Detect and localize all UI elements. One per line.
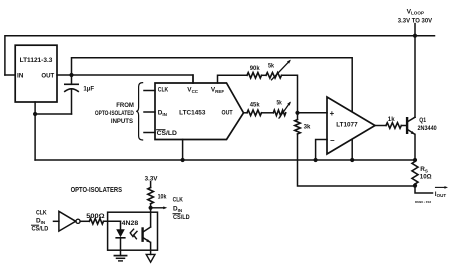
wire: input to buffer xyxy=(54,220,59,222)
wire: top divider down to summing node xyxy=(282,75,298,113)
op-amp U1 LT1077 xyxy=(327,97,375,154)
arrow to isolated outputs xyxy=(151,207,165,209)
pin: CS/LD stub xyxy=(144,132,155,134)
svg-text:IN: IN xyxy=(17,73,24,80)
label IOUT with arrow xyxy=(436,186,446,188)
node: VLOOP junction on top rail xyxy=(413,34,417,38)
svg-text:10k: 10k xyxy=(158,194,167,201)
wire: regulator OUT to LTC1453 VCC xyxy=(57,75,193,83)
svg-text:3k: 3k xyxy=(304,123,311,130)
wire: 1k to Q1 base xyxy=(401,125,406,127)
svg-text:DN96 • F03: DN96 • F03 xyxy=(415,200,431,204)
wire: summing node to op-amp + input xyxy=(298,112,328,114)
trimpot 5k (middle) xyxy=(273,110,285,116)
pin: VREF stub and wire to 90k xyxy=(218,75,248,83)
trimpot 5k (top) xyxy=(266,73,282,79)
svg-text:OUT: OUT xyxy=(222,110,233,117)
pin: GND stub to ground rail xyxy=(182,140,184,161)
buffer/inverter A1 xyxy=(59,211,76,231)
svg-text:Q1: Q1 xyxy=(419,117,426,124)
svg-text:3.3V: 3.3V xyxy=(145,175,159,182)
wire: 90k to 5k xyxy=(262,74,267,76)
wire: bubble to 500 ohm xyxy=(80,220,89,222)
svg-text:1µF: 1µF xyxy=(83,85,94,92)
svg-text:CS/LD: CS/LD xyxy=(157,130,178,137)
wire: IN pin to left rail xyxy=(5,74,15,76)
svg-text:CLK: CLK xyxy=(36,209,47,216)
svg-text:+: + xyxy=(330,109,335,118)
svg-text:−: − xyxy=(330,136,335,145)
DAC U3 LTC1453 outline xyxy=(155,83,244,140)
wire: 3k to RS bottom (loop return) xyxy=(298,134,416,186)
pin: VCC stub xyxy=(192,75,194,83)
node: - input tap on rail xyxy=(314,158,318,162)
node: op-amp V- on rail xyxy=(350,158,354,162)
svg-text:45k: 45k xyxy=(250,102,260,109)
svg-text:4N28: 4N28 xyxy=(122,220,139,227)
svg-text:CLK: CLK xyxy=(158,87,169,94)
resistor 500 ohm xyxy=(89,219,103,225)
resistor RS 10 ohm xyxy=(412,162,418,185)
svg-text:1k: 1k xyxy=(388,116,395,123)
svg-text:5k: 5k xyxy=(268,62,274,69)
resistor 3k xyxy=(297,113,299,120)
svg-text:500Ω: 500Ω xyxy=(86,213,104,220)
ground (earth) under LED xyxy=(114,255,126,257)
wire: photo emitter down to signal ground xyxy=(150,242,152,254)
brace for opto-isolated inputs xyxy=(136,83,143,140)
pin: op-amp V- to ground rail xyxy=(351,140,353,160)
svg-text:3.3V TO 30V: 3.3V TO 30V xyxy=(398,17,433,24)
signal ground triangle xyxy=(146,254,155,262)
wire: VLOOP drop to Q1 collector xyxy=(414,24,416,118)
svg-text:90k: 90k xyxy=(250,65,260,72)
phototransistor inside opto xyxy=(141,229,143,241)
wire: regulator GND down to ground rail xyxy=(34,102,36,160)
opto-isolator 4N28 box xyxy=(108,212,158,250)
wire: DAC OUT to 45k xyxy=(244,112,248,114)
svg-text:CS/LD: CS/LD xyxy=(173,214,190,221)
node: LTC1453 GND on rail xyxy=(181,158,185,162)
wire: op-amp output to 1k xyxy=(375,125,386,127)
wire: 3.3V to op-amp V+ supply xyxy=(72,58,353,112)
svg-text:OPTO-ISOLATERS: OPTO-ISOLATERS xyxy=(71,185,122,194)
svg-text:INPUTS: INPUTS xyxy=(111,118,133,125)
svg-text:LTC1453: LTC1453 xyxy=(179,110,206,117)
svg-text:LT1121-3.3: LT1121-3.3 xyxy=(20,57,53,64)
node: collector / 10k junction xyxy=(149,206,153,210)
inverter bubble xyxy=(76,219,80,223)
wire: photo collector up to 10k xyxy=(150,204,152,227)
wire: 3.3V stub xyxy=(150,182,152,188)
node: GND pin junction xyxy=(33,112,37,116)
svg-text:LT1077: LT1077 xyxy=(336,121,358,128)
resistor 10k pull-up xyxy=(148,188,154,204)
node: emitter / RS junction xyxy=(413,158,417,162)
svg-text:5k: 5k xyxy=(277,99,283,106)
wire: 45k to 5k xyxy=(262,112,274,114)
svg-text:CS/LD: CS/LD xyxy=(32,226,49,233)
pin: CLK stub xyxy=(144,90,155,92)
resistor 1k xyxy=(386,123,401,129)
photon coupling squiggles xyxy=(130,229,133,236)
node: RS bottom junction xyxy=(413,184,417,188)
regulator U2 LT1121-3.3 box xyxy=(15,45,57,102)
LED inside opto xyxy=(120,221,122,229)
svg-text:2N3440: 2N3440 xyxy=(418,125,438,132)
svg-text:OPTO-ISOLATED: OPTO-ISOLATED xyxy=(95,110,134,117)
wire: VLOOP top rail xyxy=(5,36,435,75)
pin: DIN stub xyxy=(144,111,155,113)
capacitor C1 1uF xyxy=(71,75,73,84)
resistor 45k xyxy=(247,110,262,116)
svg-text:OUT: OUT xyxy=(41,73,54,80)
node: summing node at op-amp + xyxy=(295,111,299,115)
resistor 90k xyxy=(247,73,262,79)
svg-text:FROM: FROM xyxy=(116,102,134,109)
svg-text:CLK: CLK xyxy=(173,196,184,203)
wire: ground rail xyxy=(35,159,415,161)
node: 3.3V output node xyxy=(69,73,73,77)
svg-text:10Ω: 10Ω xyxy=(420,174,432,181)
wire: 500 ohm to LED xyxy=(104,220,121,222)
wire: capacitor return to GND pin xyxy=(35,113,71,115)
transistor Q1 2N3440 xyxy=(406,118,408,133)
wire: loop return to IOUT xyxy=(415,186,433,193)
wire: op-amp - input to ground rail xyxy=(316,140,327,161)
